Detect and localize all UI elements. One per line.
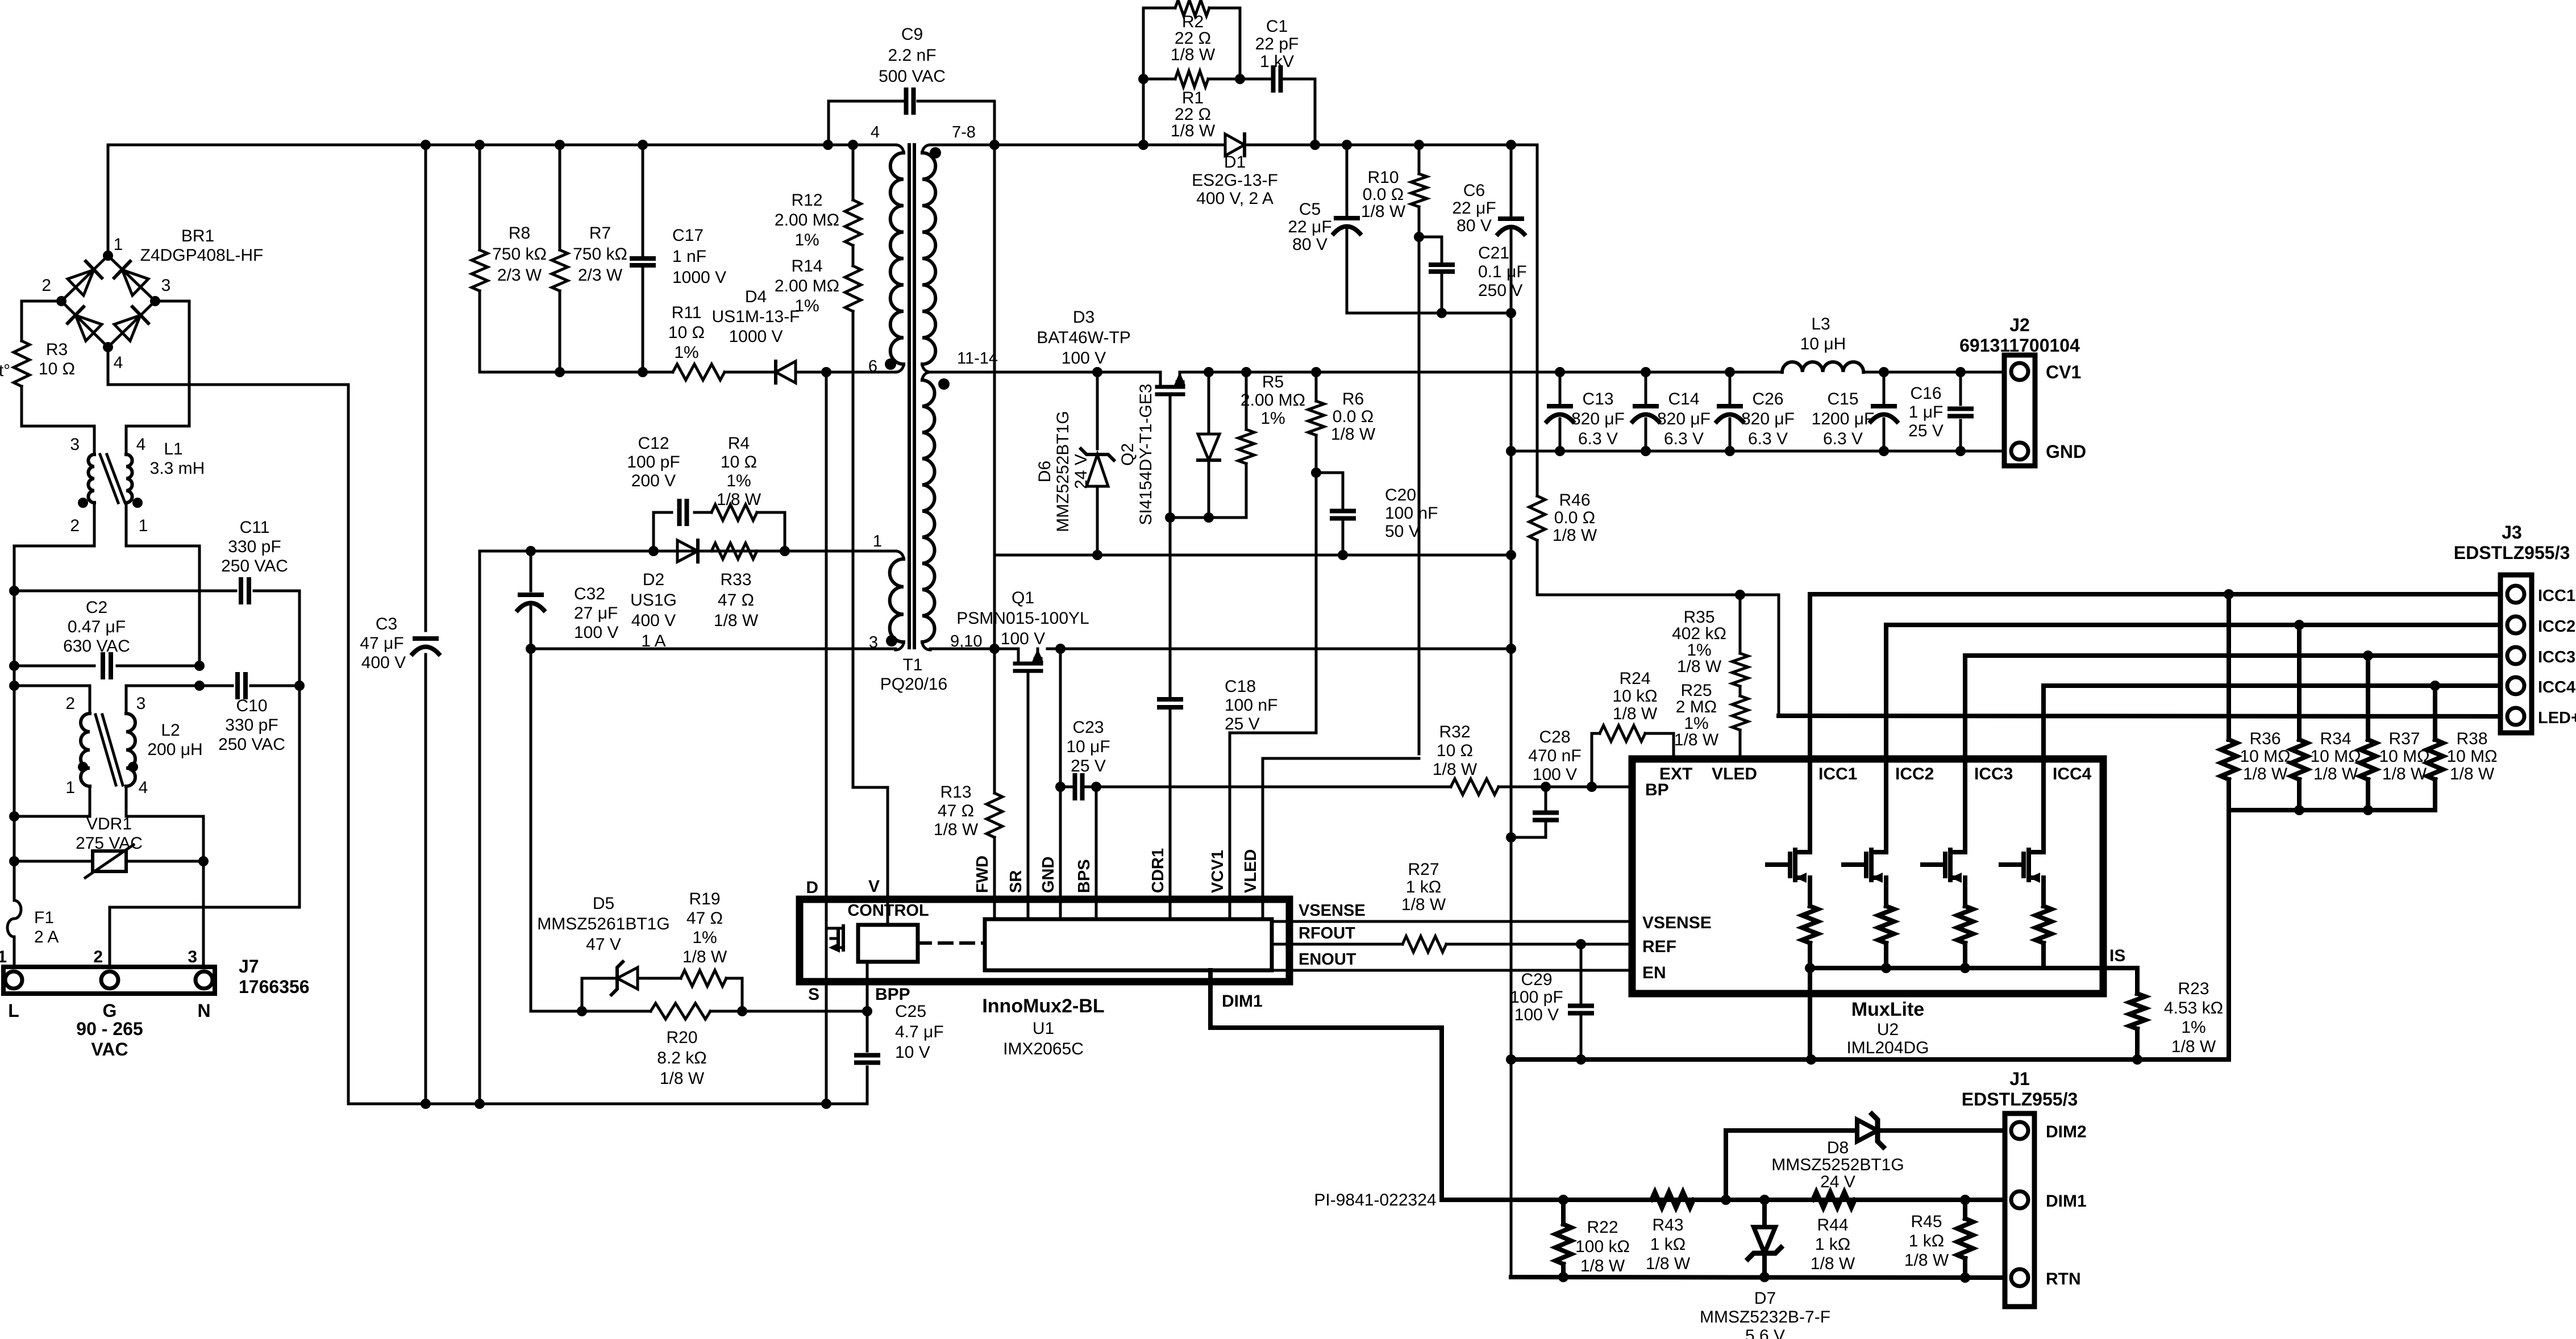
- svg-text:11-14: 11-14: [957, 349, 998, 368]
- node C14: [1641, 367, 1651, 456]
- resistor R38: [2427, 686, 2443, 810]
- svg-text:D1: D1: [1224, 153, 1246, 172]
- svg-text:1/8 W: 1/8 W: [1401, 895, 1446, 914]
- node R45 top: [1960, 1195, 1970, 1205]
- svg-text:C26: C26: [1752, 390, 1783, 408]
- svg-text:DIM1: DIM1: [1222, 992, 1263, 1011]
- capacitor C17: [632, 226, 726, 287]
- resistor R33: [711, 543, 757, 559]
- label R25: [1674, 681, 1719, 749]
- svg-text:250 VAC: 250 VAC: [221, 557, 288, 575]
- wire CDR1 branch with C18: [1169, 518, 1172, 899]
- resistor R44: [1813, 1192, 1855, 1208]
- svg-text:R13: R13: [940, 783, 971, 802]
- varistor VDR1: [14, 845, 203, 878]
- wire BPS to R32 line: [1096, 786, 1451, 789]
- label D8: [1771, 1138, 1904, 1191]
- node D3 anode: [1204, 512, 1214, 523]
- svg-text:10 V: 10 V: [895, 1043, 930, 1062]
- wire BR1 pin1 to rail: [107, 145, 110, 256]
- svg-text:10 Ω: 10 Ω: [1437, 741, 1473, 760]
- svg-text:L3: L3: [1811, 315, 1830, 333]
- svg-text:D7: D7: [1754, 1289, 1776, 1308]
- node R10 top: [1414, 140, 1424, 150]
- label DIM1 at U1: [1222, 992, 1263, 1011]
- svg-text:BPP: BPP: [875, 985, 910, 1004]
- label ICC1: [2538, 587, 2575, 605]
- svg-text:4.53 kΩ: 4.53 kΩ: [2164, 999, 2223, 1017]
- capacitor C21: [1431, 244, 1527, 300]
- label T1 pin 1: [873, 532, 882, 550]
- svg-text:0.47 μF: 0.47 μF: [68, 618, 126, 636]
- svg-text:100 pF: 100 pF: [627, 453, 680, 472]
- wire U1 VSENSE out: [1272, 920, 1632, 923]
- svg-text:100 kΩ: 100 kΩ: [1575, 1237, 1630, 1256]
- svg-text:EXT: EXT: [1659, 765, 1692, 783]
- svg-text:50 V: 50 V: [1385, 522, 1420, 541]
- label R37: [2379, 729, 2429, 783]
- wire top HV rail: [108, 144, 896, 147]
- svg-text:10 MΩ: 10 MΩ: [2446, 747, 2497, 766]
- label T1 pins 7-8: [930, 123, 976, 158]
- svg-text:D: D: [806, 878, 818, 897]
- node C3 top on rail: [421, 140, 431, 150]
- svg-text:1200 μF: 1200 μF: [1812, 410, 1875, 428]
- resistor R36: [2221, 594, 2237, 810]
- svg-text:VSENSE: VSENSE: [1642, 913, 1712, 932]
- svg-text:1%: 1%: [692, 928, 717, 947]
- svg-text:BR1: BR1: [181, 227, 214, 245]
- svg-text:4: 4: [136, 435, 146, 454]
- label J7 L G N: [8, 1000, 210, 1021]
- capacitor C1: [1255, 17, 1299, 90]
- svg-text:C14: C14: [1668, 390, 1699, 408]
- svg-text:C29: C29: [1521, 970, 1552, 989]
- label U2 name: [1846, 999, 1929, 1057]
- node C16: [1955, 367, 1966, 456]
- label DIM2: [2046, 1123, 2087, 1141]
- label J7: [239, 956, 310, 997]
- label U2 pin REF: [1642, 937, 1676, 956]
- svg-text:DIM2: DIM2: [2046, 1123, 2087, 1141]
- svg-text:2/3 W: 2/3 W: [497, 266, 542, 285]
- svg-text:1/8 W: 1/8 W: [934, 820, 979, 839]
- svg-text:CDR1: CDR1: [1149, 848, 1167, 893]
- resistor R12 R14 branch to V pin: [853, 145, 888, 925]
- wire BPS pin branch: [1095, 787, 1098, 899]
- svg-text:100 pF: 100 pF: [1510, 988, 1563, 1007]
- node C12 branch left: [648, 546, 659, 556]
- node C11 left: [9, 586, 19, 596]
- svg-text:D5: D5: [593, 894, 614, 913]
- wire U2 source bus: [1810, 966, 2103, 970]
- label R34: [2310, 729, 2361, 783]
- wire D1 cathode rail: [1245, 144, 1537, 147]
- svg-text:820 μF: 820 μF: [1741, 410, 1795, 428]
- node L1 phase dots: [78, 498, 143, 508]
- wire ICC1 column to ground bus: [1808, 968, 1812, 1059]
- wire CV1 output rail: [1560, 371, 2004, 374]
- svg-text:750 kΩ: 750 kΩ: [573, 245, 627, 264]
- svg-text:22 μF: 22 μF: [1452, 199, 1496, 218]
- wire ICC1 line: [1810, 594, 2500, 759]
- capacitor C3 branch wire: [425, 145, 427, 1104]
- svg-text:ICC3: ICC3: [2538, 648, 2575, 666]
- zener diode D7: [1748, 1200, 1781, 1277]
- svg-text:1/8 W: 1/8 W: [2382, 765, 2427, 783]
- svg-text:1/8 W: 1/8 W: [1553, 526, 1597, 545]
- svg-text:ICC2: ICC2: [2538, 618, 2575, 636]
- svg-text:US1G: US1G: [630, 591, 677, 610]
- label D7: [1700, 1289, 1830, 1339]
- inductor L3: [1782, 315, 1863, 372]
- connector J3: [2500, 575, 2532, 733]
- svg-text:R5: R5: [1262, 373, 1284, 391]
- wire Q2 source line: [1170, 516, 1246, 519]
- transistor U2 ICC1 FET: [1767, 759, 1818, 968]
- node R37 top: [2363, 650, 2373, 661]
- svg-text:R32: R32: [1439, 723, 1470, 741]
- svg-text:1: 1: [873, 532, 882, 550]
- label C29: [1510, 970, 1563, 1024]
- wire R13 FWD branch: [993, 555, 996, 899]
- wire R1 to C1: [1240, 78, 1270, 81]
- label ICC2: [2538, 618, 2575, 636]
- node C28 top: [1541, 782, 1551, 792]
- label R5: [1241, 373, 1305, 428]
- wire sense resistor bottom bus: [2229, 808, 2435, 812]
- wire ICC3 line: [1965, 656, 2500, 759]
- svg-text:R6: R6: [1342, 390, 1364, 408]
- capacitor C25: [856, 1011, 878, 1104]
- svg-text:CV1: CV1: [2046, 362, 2081, 382]
- svg-text:D4: D4: [745, 287, 767, 306]
- svg-text:R11: R11: [672, 303, 702, 322]
- resistor R46: [1529, 491, 1597, 545]
- svg-text:1766356: 1766356: [239, 977, 310, 997]
- transistor U2 ICC3 FET: [1922, 759, 1973, 968]
- svg-text:22 pF: 22 pF: [1255, 35, 1299, 53]
- label J2: [1959, 315, 2080, 356]
- wire LED+ line: [1779, 716, 2500, 716]
- svg-text:US1M-13-F: US1M-13-F: [711, 307, 800, 326]
- svg-text:2: 2: [65, 694, 75, 713]
- svg-text:1000 V: 1000 V: [672, 268, 726, 287]
- node snubber left: [1138, 140, 1148, 150]
- resistor R45: [1957, 1200, 1973, 1278]
- wire R25 R35 divider branch: [1739, 595, 1742, 759]
- resistor R11: [668, 303, 725, 380]
- wire C2 line: [14, 665, 199, 668]
- capacitor C13: [1547, 372, 1573, 451]
- wire VCV1 sense: [1230, 733, 1316, 919]
- svg-text:80 V: 80 V: [1456, 216, 1492, 235]
- svg-text:C3: C3: [376, 615, 397, 633]
- svg-text:1: 1: [0, 948, 7, 966]
- svg-text:7-8: 7-8: [952, 123, 976, 141]
- svg-text:330 pF: 330 pF: [225, 716, 278, 735]
- svg-text:10 μF: 10 μF: [1066, 737, 1110, 756]
- svg-text:R36: R36: [2249, 729, 2280, 748]
- svg-text:1%: 1%: [794, 297, 819, 315]
- wire bias line left drop: [478, 551, 481, 1104]
- node S pin on return rail: [821, 1099, 831, 1109]
- label L1: [150, 440, 205, 478]
- svg-text:1 kΩ: 1 kΩ: [1406, 878, 1441, 896]
- capacitor C23: [1060, 718, 1110, 798]
- node R12 top on rail: [848, 140, 858, 150]
- label D3: [1037, 308, 1131, 368]
- svg-text:U1: U1: [1033, 1019, 1054, 1038]
- node C26: [1725, 367, 1735, 456]
- svg-text:4: 4: [114, 353, 123, 372]
- svg-text:ICC4: ICC4: [2538, 678, 2575, 696]
- resistor R34: [2291, 625, 2307, 810]
- svg-text:1 kV: 1 kV: [1260, 52, 1294, 71]
- svg-text:U2: U2: [1877, 1020, 1899, 1039]
- svg-text:10 MΩ: 10 MΩ: [2310, 747, 2361, 766]
- node VDR1 left: [9, 856, 19, 866]
- svg-text:25 V: 25 V: [1071, 757, 1106, 775]
- node R22 top: [1558, 1195, 1568, 1205]
- capacitor C10: [218, 674, 285, 754]
- node C10 line at left vertical: [9, 681, 19, 691]
- svg-text:1 kΩ: 1 kΩ: [1909, 1232, 1944, 1250]
- node C5 bottom tie to GND vertical: [1506, 308, 1516, 318]
- node R35 top on VLED line: [1735, 590, 1745, 600]
- capacitor C20: [1316, 473, 1438, 555]
- svg-text:2: 2: [70, 516, 80, 535]
- wire secondary ground bus: [1511, 1057, 2228, 1062]
- node L2 pin1 tie: [9, 811, 19, 821]
- svg-text:10 Ω: 10 Ω: [668, 323, 705, 342]
- wire secondary 11-14 rail: [930, 371, 1560, 374]
- svg-text:200 μH: 200 μH: [147, 740, 202, 759]
- label D2: [630, 570, 677, 650]
- label T1 pins 9-10: [950, 632, 982, 650]
- svg-text:1: 1: [139, 516, 148, 535]
- node RTN bus joints: [1558, 1272, 1770, 1282]
- label U2 pin BP: [1645, 781, 1669, 799]
- IC U2 box: [1632, 759, 2103, 994]
- svg-text:L1: L1: [164, 440, 182, 458]
- capacitor C26: [1717, 372, 1743, 451]
- svg-text:R3: R3: [46, 340, 68, 359]
- capacitor C21 branch: [1419, 237, 1442, 313]
- label AC input voltage: [76, 1019, 143, 1059]
- svg-text:C15: C15: [1827, 390, 1858, 408]
- node FWD line at GND vertical: [1506, 550, 1516, 560]
- svg-text:24 V: 24 V: [1820, 1173, 1855, 1191]
- label R35: [1672, 608, 1726, 676]
- node R6 bottom C20 tap: [1311, 468, 1321, 478]
- svg-text:47 V: 47 V: [586, 935, 621, 954]
- svg-text:0.1 μF: 0.1 μF: [1478, 262, 1527, 281]
- svg-text:C13: C13: [1582, 390, 1613, 408]
- label U1 pin SR: [1007, 870, 1025, 893]
- svg-text:2.00 MΩ: 2.00 MΩ: [775, 277, 839, 295]
- svg-text:C23: C23: [1072, 718, 1104, 737]
- label D6: [1035, 461, 1054, 482]
- capacitor C9 branch: [829, 101, 994, 145]
- label R43: [1646, 1216, 1691, 1273]
- transformer T1 secondary winding 9-10 side: [922, 372, 935, 650]
- node FWD at 9-10 rail: [989, 644, 1000, 654]
- svg-text:VCV1: VCV1: [1209, 850, 1227, 893]
- node R8 top: [475, 140, 485, 150]
- node bias drop on return rail: [475, 1099, 485, 1109]
- svg-text:1 nF: 1 nF: [672, 247, 706, 266]
- wire BPP pin: [866, 962, 869, 1011]
- node R36 top: [2224, 589, 2234, 599]
- label VDR1: [76, 815, 143, 853]
- fuse F1: [7, 900, 59, 946]
- svg-text:C1: C1: [1266, 17, 1288, 36]
- svg-text:MMSZ5252BT1G: MMSZ5252BT1G: [1771, 1156, 1904, 1174]
- wire DIM1 route: [1210, 970, 1442, 1200]
- svg-text:1/8 W: 1/8 W: [1613, 704, 1658, 723]
- wire DIM1 line: [1442, 1198, 2005, 1202]
- svg-text:R38: R38: [2456, 729, 2487, 748]
- svg-text:IS: IS: [2109, 946, 2125, 965]
- svg-text:400 V: 400 V: [361, 653, 406, 672]
- capacitor C11: [221, 518, 288, 602]
- wire BR1 pin2 to R3: [22, 301, 61, 341]
- svg-text:GND: GND: [1039, 857, 1058, 893]
- label C32: [574, 585, 618, 642]
- svg-text:3.3 mH: 3.3 mH: [150, 459, 205, 478]
- wire sense bus to ground bus: [2137, 810, 2229, 1059]
- svg-text:1/8 W: 1/8 W: [1904, 1251, 1949, 1270]
- svg-text:400 V: 400 V: [631, 611, 676, 630]
- node GND rail left: [1506, 446, 1516, 456]
- label C16: [1908, 384, 1944, 440]
- node C23 right on BPS branch: [1091, 782, 1101, 792]
- svg-text:VAC: VAC: [91, 1039, 128, 1059]
- svg-text:1/8 W: 1/8 W: [1331, 425, 1376, 444]
- node C17 top: [638, 140, 648, 150]
- label C13: [1571, 390, 1625, 448]
- svg-text:D2: D2: [643, 570, 664, 589]
- node C29 top on REF line: [1576, 939, 1586, 949]
- svg-text:100 nF: 100 nF: [1225, 696, 1277, 715]
- label ICC4: [2538, 678, 2575, 696]
- label ICC3: [2538, 648, 2575, 666]
- label L2 pins: [65, 694, 148, 797]
- svg-text:CONTROL: CONTROL: [847, 902, 929, 920]
- svg-text:1/8 W: 1/8 W: [660, 1069, 705, 1088]
- label U1 pin VCV1: [1209, 850, 1227, 893]
- wire L1 pin1 down to C2 right net: [126, 503, 199, 666]
- label J7 pin numbers: [0, 948, 197, 966]
- diode D1: [1192, 134, 1278, 208]
- svg-text:1/8 W: 1/8 W: [2450, 765, 2495, 783]
- node C10 at C2-right vertical: [194, 681, 205, 691]
- node R34 top: [2294, 620, 2304, 630]
- svg-text:F1: F1: [34, 908, 54, 927]
- label L1 pins: [70, 435, 148, 535]
- node C20 bottom on FWD line: [1338, 550, 1348, 560]
- label J3: [2454, 522, 2570, 563]
- wire 9-10 rail: [930, 648, 1511, 650]
- svg-text:C25: C25: [895, 1002, 926, 1021]
- svg-text:IML204DG: IML204DG: [1846, 1038, 1929, 1057]
- svg-text:J7: J7: [239, 956, 259, 977]
- wire R32 to BP of U2: [1499, 786, 1632, 789]
- node D7 top: [1759, 1195, 1770, 1205]
- resistor R25: [1732, 696, 1748, 730]
- resistor R24 to EXT: [1592, 669, 1674, 787]
- label U2 pin VSENSE: [1642, 913, 1712, 932]
- svg-text:6.3 V: 6.3 V: [1578, 429, 1618, 448]
- label U1 name: [982, 995, 1104, 1058]
- svg-text:100 nF: 100 nF: [1385, 504, 1438, 523]
- wire U1 RFOUT with R27: [1272, 936, 1632, 952]
- label CV1: [2046, 362, 2081, 382]
- label R20: [657, 1028, 706, 1088]
- node Q1 source on rail: [1055, 644, 1066, 654]
- svg-text:1/8 W: 1/8 W: [1361, 202, 1406, 221]
- label LED+: [2538, 709, 2576, 727]
- svg-text:6: 6: [868, 357, 877, 376]
- wire BPP line to pin: [742, 1010, 867, 1013]
- svg-text:ICC1: ICC1: [1818, 765, 1857, 783]
- svg-text:SI4154DY-T1-GE3: SI4154DY-T1-GE3: [1137, 383, 1155, 525]
- svg-text:1 μF: 1 μF: [1909, 403, 1944, 422]
- node D4 cathode / D pin tap: [821, 367, 831, 377]
- svg-text:2.00 MΩ: 2.00 MΩ: [1241, 391, 1305, 410]
- svg-text:RTN: RTN: [2046, 1270, 2081, 1288]
- connector J1: [2005, 1113, 2034, 1307]
- svg-text:IMX2065C: IMX2065C: [1003, 1040, 1084, 1058]
- svg-text:GND: GND: [2046, 441, 2086, 462]
- wire D8 branch: [1726, 1131, 1857, 1200]
- svg-text:4.7 μF: 4.7 μF: [895, 1023, 944, 1041]
- node BR1 pin1: [103, 235, 123, 261]
- wire FWD line horizontal: [994, 554, 1511, 557]
- label T1 pin 4: [871, 123, 880, 141]
- svg-text:R27: R27: [1408, 860, 1439, 879]
- wire ICC2 line: [1886, 625, 2500, 759]
- wire D pin of U1: [825, 372, 828, 899]
- capacitor C5 branch: [1346, 145, 1349, 313]
- resistor R13: [934, 783, 1002, 839]
- svg-text:J1: J1: [2009, 1069, 2030, 1089]
- wire GND vertical: [1510, 313, 1513, 1277]
- capacitor C16: [1950, 372, 1971, 451]
- label D5: [537, 894, 669, 954]
- transformer T1 primary winding pin4-6: [890, 145, 904, 372]
- svg-text:1%: 1%: [2181, 1018, 2205, 1037]
- capacitor C6 branch: [1510, 145, 1513, 313]
- label Q2 part: [1137, 383, 1155, 525]
- svg-text:250 VAC: 250 VAC: [218, 735, 285, 754]
- node BPP C25 junction: [862, 1006, 872, 1016]
- capacitor C9: [879, 25, 946, 112]
- node C10 right at ground vertical: [294, 681, 305, 691]
- svg-text:VDR1: VDR1: [86, 815, 132, 833]
- svg-text:1/8 W: 1/8 W: [1580, 1257, 1625, 1275]
- zener diode D6: [1081, 372, 1114, 555]
- label R19: [683, 890, 727, 966]
- node GND at 9-10 rail: [1506, 644, 1516, 654]
- capacitor C14: [1633, 372, 1659, 451]
- svg-text:1: 1: [65, 778, 75, 797]
- IC U1 CONTROL box: [858, 899, 918, 962]
- wire ground bus to RTN bus: [1510, 1059, 1513, 1277]
- node D2 R33 output junction: [780, 546, 790, 556]
- label T1 pin 3: [869, 633, 897, 652]
